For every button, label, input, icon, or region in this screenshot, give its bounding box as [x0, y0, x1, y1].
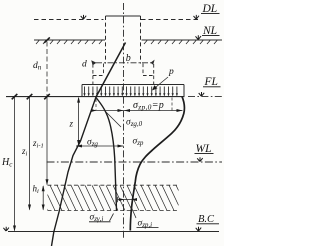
pedestal step boxes (dashed) [93, 64, 154, 85]
z_i-1 dimension line [46, 98, 48, 185]
WL level marker [197, 157, 203, 161]
NL ground hatch ticks [36, 40, 217, 44]
svg-text:σzg: σzg [87, 138, 98, 149]
B.C level marker left [3, 227, 9, 231]
svg-text:p: p [168, 67, 174, 77]
svg-text:σzp: σzp [133, 137, 144, 148]
base pressure tick arrowheads [83, 93, 178, 96]
NL level marker [196, 35, 202, 39]
NL natural ground line with hatching [34, 39, 222, 41]
DL level marker right [194, 15, 200, 19]
sigma_zg,0 leader [106, 112, 121, 127]
B.C bottom of compressed zone line [8, 231, 219, 233]
DL level marker left [81, 15, 87, 19]
FL level marker [199, 92, 205, 96]
svg-text:σzp,0=p: σzp,0=p [133, 100, 164, 112]
d_n embedment dimension line [46, 42, 48, 97]
inner curve from apex (sigma_zg,0 construction) [96, 98, 117, 212]
DL level dashed line [34, 19, 199, 21]
foundation slab outline [82, 85, 184, 97]
sigma_zg dimension line at depth z [76, 145, 124, 147]
soil layer i top boundary (dashed) [48, 184, 179, 186]
step level line with end arrows (d reference) [96, 62, 152, 64]
z depth dimension line [78, 98, 80, 145]
sigma_zp,i dimension inside layer i [118, 199, 133, 201]
H_c dimension line [14, 98, 16, 231]
svg-text:d: d [82, 60, 87, 70]
svg-text:dn: dn [33, 61, 42, 72]
column outline (dashed, above ground) [106, 16, 141, 64]
z_i dimension line [29, 98, 31, 210]
soil layer i hatching [36, 185, 188, 210]
sigma_zp,i label with leader [131, 207, 136, 219]
sigma_zp additional stress curve [130, 97, 184, 231]
sigma_zp,0 = p dimension below base [124, 110, 183, 112]
h_i dimension line [42, 186, 44, 210]
FL foundation base line [6, 96, 185, 98]
base pressure ticks (load p on base) [85, 87, 177, 94]
sigma_zg self-weight stress line below base [52, 97, 97, 246]
sigma_zg line above base (labelled b) [96, 43, 126, 98]
svg-text:σzg,0: σzg,0 [126, 118, 143, 129]
svg-text:b: b [126, 53, 131, 64]
sigma_zg,0 dimension below base [91, 110, 124, 112]
WL water level line [47, 161, 223, 163]
soil layer i bottom boundary (dashed) [48, 210, 179, 212]
svg-text:FL: FL [204, 76, 218, 88]
centerline of column and foundation [123, 3, 125, 238]
svg-text:z: z [69, 119, 74, 129]
B.C level marker right [196, 227, 202, 231]
